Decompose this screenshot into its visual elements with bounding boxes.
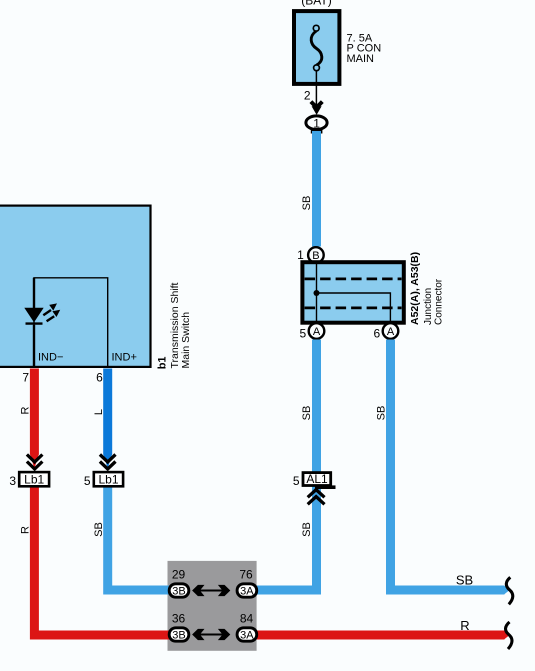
LED cathode bar	[26, 322, 43, 324]
svg-text:2: 2	[304, 89, 311, 103]
svg-text:1: 1	[297, 248, 304, 262]
svg-text:29: 29	[172, 567, 186, 581]
svg-text:R: R	[20, 406, 32, 414]
wire SB taper into AL1	[312, 491, 321, 505]
svg-text:Main Switch: Main Switch	[180, 312, 192, 369]
chevron female AL1	[308, 490, 325, 505]
svg-text:MAIN: MAIN	[347, 53, 375, 65]
svg-text:SB: SB	[456, 572, 473, 587]
svg-text:3B: 3B	[172, 586, 185, 598]
connector circle A left	[309, 323, 325, 339]
wire R below Lb1 to 3B	[34, 487, 179, 636]
LED anode line	[33, 278, 35, 309]
terminal 3B row2	[169, 628, 189, 641]
terminal 3A row2	[237, 628, 257, 641]
svg-text:84: 84	[240, 611, 254, 625]
LED D1	[24, 308, 43, 323]
node stub	[311, 126, 323, 134]
connector AL1	[303, 473, 331, 486]
connector Lb1 right	[94, 472, 123, 486]
svg-text:A52(A), A53(B): A52(A), A53(B)	[409, 252, 421, 325]
gray joint box	[168, 561, 257, 651]
svg-text:(BAT): (BAT)	[301, 0, 331, 8]
svg-text:1: 1	[313, 116, 320, 130]
svg-text:Lb1: Lb1	[24, 472, 44, 486]
wire L from pin6	[103, 369, 112, 455]
fuse symbol	[311, 31, 322, 65]
svg-text:3A: 3A	[240, 586, 254, 598]
wire SB fuse down to junction B	[312, 131, 321, 247]
svg-text:6: 6	[96, 370, 103, 384]
wire SB below Lb1 to 3B	[108, 487, 179, 591]
svg-text:6: 6	[374, 327, 381, 341]
svg-text:SB: SB	[93, 522, 105, 537]
terminal 3B row1	[169, 584, 189, 597]
svg-text:SB: SB	[301, 196, 313, 211]
wire break squiggle SB	[506, 577, 512, 604]
svg-text:5: 5	[293, 474, 300, 488]
svg-text:L: L	[93, 409, 105, 415]
wire fuse to connector 1	[315, 71, 317, 107]
dashed bus line 2	[305, 306, 402, 309]
svg-text:IND−: IND−	[38, 352, 63, 364]
svg-text:SB: SB	[301, 522, 313, 537]
chevron female L	[100, 455, 116, 470]
svg-text:A: A	[313, 326, 321, 338]
svg-text:Connector: Connector	[433, 278, 444, 325]
dashed bus line 1	[305, 277, 402, 280]
main switch box	[0, 206, 151, 367]
connector ring 1	[306, 116, 327, 130]
LED cathode line	[33, 325, 35, 367]
svg-text:7: 7	[22, 370, 29, 384]
svg-text:IND+: IND+	[112, 352, 137, 364]
internal wire to A6	[317, 293, 391, 323]
svg-text:3A: 3A	[240, 630, 254, 642]
svg-text:A: A	[387, 326, 395, 338]
inner compartment	[34, 278, 108, 367]
svg-text:36: 36	[172, 611, 186, 625]
svg-text:SB: SB	[301, 406, 313, 421]
wire R from pin7 down	[30, 369, 39, 455]
junction dot	[314, 290, 320, 296]
chevron female R	[27, 455, 43, 470]
joint arrows row 2	[200, 634, 226, 636]
svg-text:Transmission Shift: Transmission Shift	[169, 282, 181, 368]
connector circle A right	[383, 323, 399, 339]
wire R from 3A to squiggle	[247, 631, 505, 640]
svg-text:R: R	[460, 618, 469, 633]
svg-text:3B: 3B	[172, 630, 185, 642]
terminal 3A row1	[237, 584, 257, 597]
svg-text:76: 76	[239, 567, 253, 581]
svg-text:Junction: Junction	[423, 288, 434, 325]
connector Lb1 left	[19, 472, 49, 486]
svg-text:SB: SB	[375, 406, 387, 421]
wire SB from A6 to squiggle	[391, 340, 505, 591]
connector circle B	[308, 247, 324, 263]
svg-text:5: 5	[84, 474, 91, 488]
wire break squiggle R	[506, 622, 512, 649]
svg-text:Lb1: Lb1	[98, 472, 118, 486]
arrow male connector	[311, 102, 322, 108]
wire SB from A5 through AL1 to 3A	[247, 340, 317, 591]
joint arrows row 1	[200, 590, 226, 592]
LED arrow 1	[43, 310, 51, 315]
LED arrow 2	[47, 316, 55, 321]
svg-text:AL1: AL1	[306, 472, 328, 486]
fuse box F1	[294, 11, 339, 84]
junction connector box A52/A53	[302, 262, 403, 323]
svg-text:3: 3	[9, 474, 16, 488]
internal wire B to A5	[316, 262, 318, 323]
svg-text:R: R	[20, 526, 32, 534]
svg-text:b1: b1	[157, 356, 169, 369]
AL1 bottom bar	[315, 485, 336, 489]
svg-text:5: 5	[300, 327, 307, 341]
